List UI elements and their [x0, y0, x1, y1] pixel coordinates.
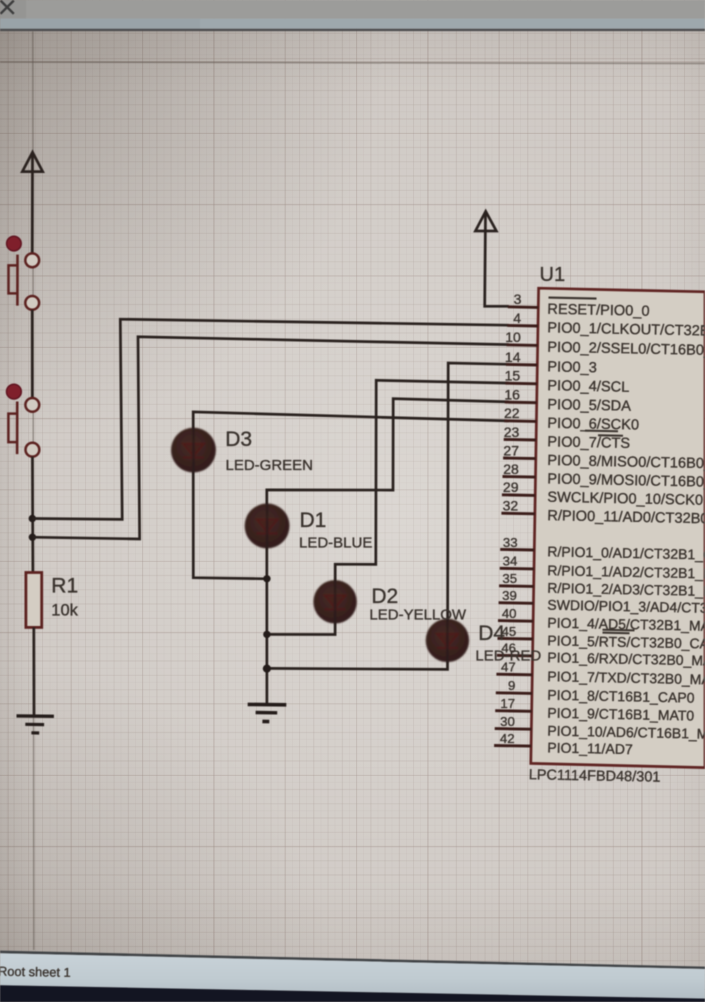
sheet border top — [0, 62, 705, 64]
LED D3 — [171, 428, 216, 473]
wire arrow1 to button1 — [31, 154, 34, 254]
pin 39 stub — [499, 601, 534, 604]
pin 29 stub — [502, 493, 535, 497]
pin 28 stub — [503, 475, 536, 479]
svg-text:10k: 10k — [51, 602, 78, 620]
pin 10 stub — [507, 343, 538, 347]
svg-text:PIO1_8/CT16B1_CAP0: PIO1_8/CT16B1_CAP0 — [547, 687, 695, 706]
IC U1 body — [531, 288, 705, 767]
svg-text:D2: D2 — [371, 585, 398, 608]
svg-text:LED-BLUE: LED-BLUE — [299, 535, 372, 552]
CTS overline (pin 23) — [598, 434, 623, 437]
canvas top edge — [0, 29, 705, 31]
svg-text:10: 10 — [505, 329, 521, 345]
wire pin4 to buttons node — [32, 319, 509, 519]
SCK0 underline (pin 22) — [585, 430, 618, 433]
pin 27 stub — [503, 457, 536, 461]
wire pin15 to D2 — [267, 380, 509, 634]
svg-text:33: 33 — [503, 535, 518, 550]
wire button1 to button2 — [31, 310, 34, 398]
pin 16 stub — [505, 401, 537, 405]
status bar top edge — [0, 951, 705, 969]
wire pin10 to buttons node — [32, 337, 508, 539]
svg-text:U1: U1 — [540, 264, 566, 286]
wire button2 to R1 — [31, 457, 34, 573]
svg-text:4: 4 — [513, 310, 521, 326]
pin 22 stub — [504, 419, 536, 423]
pin 40 stub — [498, 619, 533, 623]
pin 34 stub — [500, 567, 534, 571]
pushbutton plunger (button 2) — [16, 402, 19, 455]
node junction D3 cathode — [263, 575, 270, 582]
pin 4 stub — [507, 324, 538, 328]
pin 14 stub — [506, 363, 537, 367]
wire R1 to ground — [32, 627, 35, 714]
svg-text:42: 42 — [500, 731, 515, 746]
svg-text:30: 30 — [500, 714, 515, 729]
sheet border left — [33, 32, 34, 951]
pushbutton terminal circle bottom (button 2) — [26, 443, 40, 457]
pin 3 stub — [508, 305, 539, 309]
power symbol VCC left — [22, 152, 42, 171]
toolbar strip — [0, 0, 705, 19]
LED D2 — [313, 580, 356, 623]
node junction D2 cathode — [263, 631, 270, 638]
resistor R1 body — [26, 573, 42, 628]
svg-text:LED-YELLOW: LED-YELLOW — [369, 607, 467, 624]
pin 47 stub — [496, 673, 532, 676]
pin 45 stub — [498, 637, 533, 640]
wire pin14 to D4 — [267, 363, 509, 669]
pin 9 stub — [496, 691, 532, 695]
pushbutton bracket (button 2) — [8, 414, 17, 443]
RESET overline — [549, 298, 597, 299]
wire arrow2 to pin3 — [485, 213, 509, 306]
node junction to pin10 wire — [29, 534, 36, 541]
pin 35 stub — [499, 584, 534, 588]
pin 42 stub — [494, 744, 531, 747]
pin 46 stub — [497, 654, 533, 658]
svg-text:3: 3 — [514, 291, 522, 307]
pin 33 stub — [500, 548, 534, 551]
svg-text:LED-GREEN: LED-GREEN — [226, 457, 314, 474]
wire pin22 to D3 — [193, 412, 509, 579]
ground symbol left — [17, 716, 54, 733]
svg-text:D4: D4 — [478, 622, 505, 645]
svg-text:14: 14 — [505, 349, 521, 365]
pushbutton terminal circle top (button 2) — [25, 398, 39, 412]
pushbutton bracket (button 1) — [9, 265, 18, 293]
pushbutton cap red dot (button 1) — [7, 236, 22, 251]
LED D1 — [245, 504, 290, 549]
svg-text:SWCLK/PIO0_10/SCK0: SWCLK/PIO0_10/SCK0 — [547, 490, 703, 509]
node junction D4 cathode — [263, 665, 271, 673]
ground symbol LED common — [248, 704, 287, 721]
wire pin16 to D1 — [267, 399, 509, 705]
svg-text:D3: D3 — [225, 428, 252, 451]
svg-text:PIO0_3: PIO0_3 — [547, 359, 597, 376]
LED D4 — [426, 619, 469, 662]
svg-text:22: 22 — [504, 405, 520, 421]
svg-text:34: 34 — [503, 554, 518, 569]
pushbutton cap red dot (button 2) — [6, 384, 21, 399]
svg-text:PIO0_4/SCL: PIO0_4/SCL — [547, 378, 629, 396]
AD5 underline (pin 40) — [603, 629, 635, 632]
svg-text:27: 27 — [503, 442, 519, 458]
pin 15 stub — [505, 382, 537, 385]
scrollbar band — [0, 19, 705, 29]
svg-text:PIO1_9/CT16B1_MAT0: PIO1_9/CT16B1_MAT0 — [547, 705, 694, 724]
svg-text:LED-RED: LED-RED — [475, 648, 541, 665]
svg-text:LPC1114FBD48/301: LPC1114FBD48/301 — [529, 767, 661, 786]
svg-text:40: 40 — [502, 606, 517, 621]
bottom dark bar — [0, 985, 705, 1002]
svg-text:16: 16 — [504, 387, 520, 403]
svg-text:D1: D1 — [300, 509, 327, 532]
svg-text:Root sheet 1: Root sheet 1 — [0, 964, 71, 980]
close X icon — [1, 1, 14, 14]
pushbutton plunger (button 1) — [16, 255, 19, 306]
node junction to pin4 wire — [29, 515, 36, 522]
svg-text:PIO1_11/AD7: PIO1_11/AD7 — [547, 739, 633, 757]
pushbutton terminal circle bottom (button 1) — [25, 296, 39, 310]
svg-text:35: 35 — [502, 571, 517, 586]
svg-text:9: 9 — [508, 678, 515, 693]
svg-text:23: 23 — [504, 424, 520, 440]
pin 17 stub — [495, 709, 532, 712]
svg-text:R1: R1 — [51, 574, 78, 597]
svg-text:15: 15 — [505, 368, 521, 384]
pin 30 stub — [495, 727, 532, 731]
svg-text:29: 29 — [503, 479, 519, 495]
svg-text:PIO0_7/CTS: PIO0_7/CTS — [547, 434, 630, 452]
svg-text:PIO0_5/SDA: PIO0_5/SDA — [547, 397, 631, 415]
svg-text:28: 28 — [503, 461, 519, 477]
pushbutton terminal circle top (button 1) — [25, 253, 39, 267]
power symbol VCC at RESET — [475, 211, 496, 231]
RTS overline (pin 45) — [603, 632, 630, 635]
svg-text:39: 39 — [502, 588, 517, 603]
svg-text:17: 17 — [500, 696, 515, 711]
pin 32 stub — [501, 512, 535, 515]
svg-text:RESET/PIO0_0: RESET/PIO0_0 — [547, 302, 650, 320]
svg-text:32: 32 — [503, 498, 519, 514]
pin 23 stub — [504, 438, 536, 442]
